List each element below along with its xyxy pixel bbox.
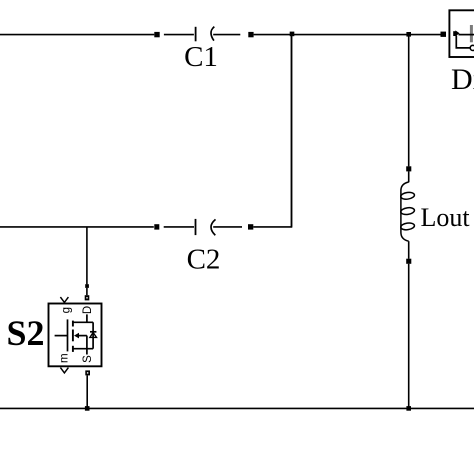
svg-text:D: D [82,306,94,314]
svg-text:S2: S2 [6,313,44,353]
node C2 right terminal pad [248,224,253,229]
inductor Lout petal 1 [400,192,415,200]
capacitor C2 left plate [195,219,197,235]
S2 mosfet gate lead [55,335,68,337]
svg-text:m: m [58,353,70,363]
svg-text:S: S [82,355,94,363]
diode block measurement circle [470,45,474,50]
wire pad to C2 left plate [164,226,194,228]
wire vertical to Lout top terminal [408,35,410,167]
wire C2 row junction down to S2 [86,227,88,285]
diode block box [449,10,474,57]
wire C2 terminal to corner and up to top bus [253,35,291,227]
S2 body diode triangle [90,333,97,338]
S2 mosfet source stub [73,348,93,350]
capacitor C2 right curved plate [211,219,216,235]
wire bottom bus [0,407,474,409]
wire C1 right plate to right terminal [213,34,240,36]
node wire end pad above S2 [85,284,89,288]
wire Lout bottom terminal to bottom bus [408,264,410,409]
wire C1 terminal to diode terminal (top bus) [254,34,441,36]
S2 gate input arrow chevron (top) [60,297,68,302]
capacitor C1 left plate [195,27,197,42]
junction at x=291.5 top [290,32,295,37]
S2 mosfet gate bar [67,319,69,351]
svg-text:g: g [60,307,72,313]
S2 measurement output arrow chevron (bottom) [60,368,68,373]
wire C2 row left edge to C2 left terminal [0,226,154,228]
svg-text:Lout: Lout [421,203,471,232]
junction S2 to bus [85,406,90,411]
node C1 right terminal pad [248,32,253,37]
node Lout bottom terminal pad [406,259,411,264]
inductor Lout coil rail [401,182,409,241]
S2 body diode line [92,322,94,348]
wire C2 right plate to right terminal [213,226,242,228]
wire pad to S2 drain port [86,288,88,295]
wire vertical x=291.5 from top bus down to C2 row [291,35,293,227]
S2 mosfet body stub with arrow [78,335,87,337]
node C2 left terminal pad [154,224,159,229]
node S2 source port square [85,370,90,375]
S2 source port line [86,336,88,355]
diode block measurement path [456,36,470,48]
S2 mosfet body arrowhead [74,333,79,339]
wire S2 source to bottom bus [86,375,88,408]
inductor Lout petal 3 [400,222,415,230]
mosfet S2 block box [49,304,102,367]
junction Lout to bus [406,406,411,411]
diode block anode wire [459,34,474,36]
S2 mosfet drain stub [73,321,93,323]
wire top-left to C1 left terminal [0,34,154,36]
S2 mosfet channel segment 3 [72,346,74,352]
S2 mosfet channel segment 1 [72,321,74,327]
node S2 drain port square [85,295,90,300]
node C1 left terminal pad [154,32,159,37]
svg-text:Diode: Diode [451,63,474,96]
S2 drain port line [86,314,88,322]
wire coil to Lout bottom terminal [408,241,410,259]
S2 body diode cathode bar [90,331,96,333]
junction at x=408.7 top [406,32,411,37]
wire pad to C1 left plate [164,34,194,36]
S2 mosfet channel segment 2 [72,330,74,342]
node Lout top terminal pad [406,166,411,171]
diode block input arrow [453,31,456,36]
inductor Lout petal 2 [400,207,415,215]
svg-text:C2: C2 [187,244,221,276]
svg-text:C1: C1 [184,41,218,73]
wire Lout terminal to coil [408,171,410,182]
diode block cathode bar (gray) [470,25,473,42]
capacitor C1 right curved plate [211,27,214,41]
node diode input terminal pad [441,32,447,37]
